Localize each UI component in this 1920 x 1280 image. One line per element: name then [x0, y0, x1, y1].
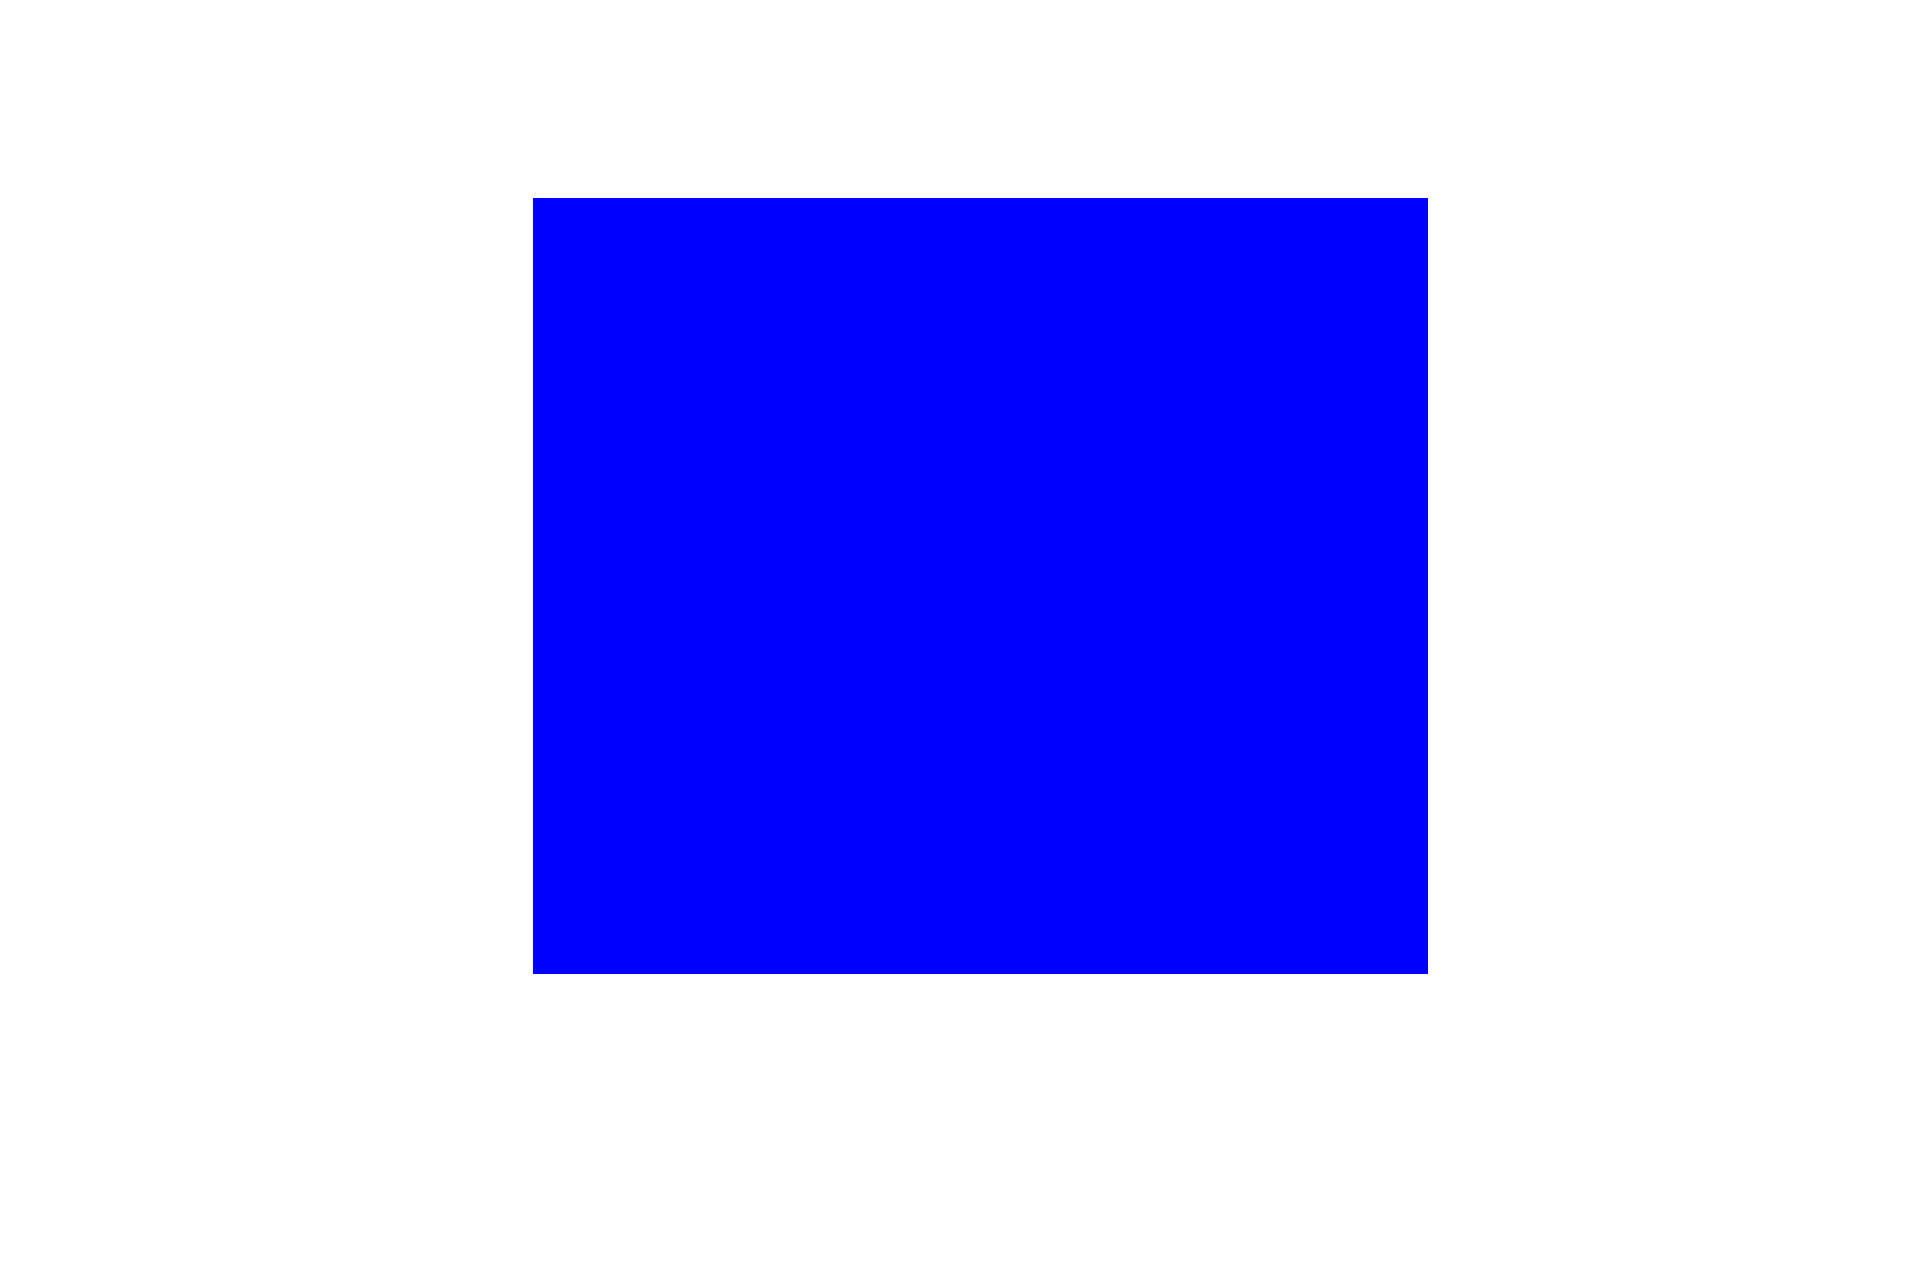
- blue rectangle: [533, 198, 1428, 974]
